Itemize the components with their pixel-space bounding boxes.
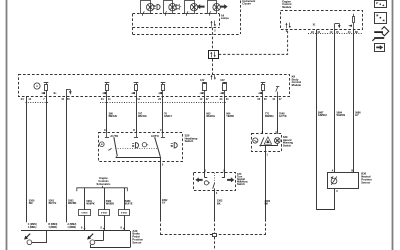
svg-text:GY/YE: GY/YE <box>279 115 287 118</box>
svg-text:Module: Module <box>282 5 292 9</box>
svg-text:GN/GY: GN/GY <box>164 115 172 118</box>
svg-text:A30: A30 <box>132 229 137 233</box>
svg-text:Control: Control <box>292 80 302 84</box>
svg-text:YE/BR: YE/BR <box>226 115 234 118</box>
svg-text:5 W01: 5 W01 <box>121 212 128 214</box>
svg-text:GN/WH: GN/WH <box>318 114 327 117</box>
svg-text:Pedal: Pedal <box>132 235 139 239</box>
svg-text:Neutral: Neutral <box>361 175 371 179</box>
svg-text:BN/GN: BN/GN <box>109 115 117 118</box>
svg-text:S30: S30 <box>185 133 190 137</box>
svg-text:B: B <box>351 169 353 172</box>
svg-text:Schematics: Schematics <box>97 183 112 186</box>
svg-text:Brake: Brake <box>132 232 140 236</box>
svg-text:Cluster: Cluster <box>242 3 251 6</box>
svg-text:BU/YE: BU/YE <box>49 202 57 205</box>
svg-text:WH/GN: WH/GN <box>337 114 346 117</box>
svg-text:GY: GY <box>355 114 359 117</box>
svg-text:Headlamp: Headlamp <box>185 136 198 140</box>
svg-text:Switch: Switch <box>185 139 194 143</box>
svg-text:B30: B30 <box>361 172 366 176</box>
svg-text:Position: Position <box>132 238 143 242</box>
svg-text:WH/PK: WH/PK <box>86 203 95 206</box>
svg-text:1 (MM2): 1 (MM2) <box>67 227 76 229</box>
svg-text:12V: 12V <box>200 79 205 82</box>
svg-text:Switch: Switch <box>237 183 245 186</box>
svg-text:BU/YE: BU/YE <box>125 203 133 206</box>
svg-text:D: D <box>133 129 135 132</box>
svg-text:WH/OG: WH/OG <box>206 115 215 118</box>
svg-text:Module: Module <box>292 83 302 87</box>
svg-text:K9: K9 <box>292 74 296 78</box>
svg-text:WH/OG: WH/OG <box>138 115 147 118</box>
svg-text:AUTO: AUTO <box>110 134 119 138</box>
svg-text:Switch: Switch <box>283 143 292 147</box>
svg-text:1 (MM1): 1 (MM1) <box>28 227 37 229</box>
svg-text:C: C <box>336 190 338 193</box>
svg-text:BK: BK <box>217 202 221 205</box>
svg-text:WH/BK: WH/BK <box>106 203 115 206</box>
svg-text:AUTO: AUTO <box>151 134 160 138</box>
svg-text:BN: BN <box>29 202 33 205</box>
svg-text:Body: Body <box>292 77 299 81</box>
svg-text:BK: BK <box>265 203 269 206</box>
svg-text:A: A <box>332 169 334 172</box>
svg-text:Lamps: Lamps <box>221 17 230 20</box>
svg-text:Position: Position <box>361 177 372 181</box>
svg-text:Sensor: Sensor <box>132 240 141 244</box>
svg-text:C (MM1): C (MM1) <box>28 224 37 226</box>
svg-text:BN/WH: BN/WH <box>265 115 274 118</box>
svg-text:16V: 16V <box>220 79 225 82</box>
svg-text:WH/BK: WH/BK <box>68 202 77 205</box>
svg-text:Sensor: Sensor <box>361 180 370 184</box>
svg-text:5 W01: 5 W01 <box>101 212 108 214</box>
svg-text:GY: GY <box>162 202 166 205</box>
svg-text:5 W01: 5 W01 <box>81 212 88 214</box>
